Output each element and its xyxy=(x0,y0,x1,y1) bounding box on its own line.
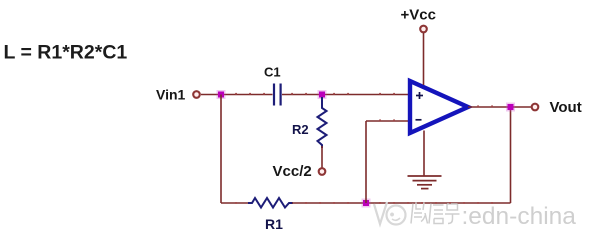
svg-text:R2: R2 xyxy=(292,122,309,137)
svg-text:R1: R1 xyxy=(265,216,283,232)
terminal Vcc/2 xyxy=(319,168,326,175)
wire C1 to op-amp + input xyxy=(282,94,408,96)
watermark text 微信号:edn-china xyxy=(411,203,460,224)
terminal Vin1 xyxy=(193,91,200,98)
wire bottom left to R1 xyxy=(221,202,249,204)
信 xyxy=(429,204,444,224)
op-amp U1 xyxy=(410,81,468,133)
wire grid ticks xyxy=(235,93,493,204)
svg-text::edn-china: :edn-china xyxy=(462,203,577,230)
wire minus input horizontal xyxy=(366,120,409,122)
node junction C1/R2 xyxy=(318,90,327,99)
wire R2 to Vcc/2 terminal xyxy=(321,146,323,168)
svg-text:Vcc/2: Vcc/2 xyxy=(273,163,312,180)
wire R1 to right corner xyxy=(292,202,511,204)
resistor R1 xyxy=(248,198,293,208)
node junction feedback/minus xyxy=(362,199,371,208)
号 xyxy=(445,204,460,224)
svg-text:+Vcc: +Vcc xyxy=(401,7,436,24)
wire op-amp output to Vout xyxy=(468,106,531,108)
ground xyxy=(408,176,442,189)
wire minus input vertical xyxy=(365,121,367,203)
wire right vertical up to output xyxy=(510,107,512,203)
svg-text:Vout: Vout xyxy=(550,99,582,116)
terminal Vout xyxy=(532,104,539,111)
terminal +Vcc xyxy=(420,26,427,33)
node junction output xyxy=(506,103,515,112)
svg-text:Vin1: Vin1 xyxy=(156,87,186,103)
wire ground stem xyxy=(423,131,425,176)
wire Vin1 to C1 xyxy=(201,94,273,96)
watermark logo xyxy=(374,202,406,225)
wire +Vcc to op-amp xyxy=(423,33,425,85)
capacitor C1 xyxy=(274,84,281,106)
resistor R2 xyxy=(318,97,327,148)
svg-text:C1: C1 xyxy=(264,65,281,80)
wire left vertical from Vin1 node down xyxy=(220,95,222,204)
微 xyxy=(411,203,428,224)
node junction at Vin1 branch xyxy=(217,90,226,99)
svg-text:L = R1*R2*C1: L = R1*R2*C1 xyxy=(4,42,128,64)
